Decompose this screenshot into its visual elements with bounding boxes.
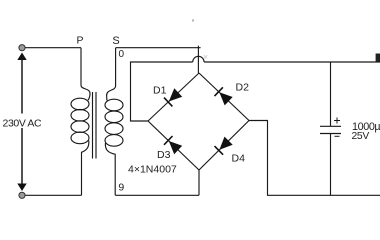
diode D1 cathode bar (164, 98, 172, 107)
transformer T1 primary bottom lead (82, 141, 89, 196)
svg-text:P: P (76, 35, 83, 47)
AC source arrow shaft (21, 56, 23, 188)
wire top from AC live terminal to transformer primary (22, 47, 81, 49)
wire bridge edge top-right (199, 73, 249, 121)
transformer T1 secondary top lead S (107, 48, 116, 101)
svg-text:D4: D4 (232, 153, 246, 165)
wire DC+ rail B left segment (131, 62, 193, 121)
wire bridge top lead (197, 46, 199, 73)
capacitor C1 plus polarity mark (334, 118, 340, 124)
svg-text:4×1N4007: 4×1N4007 (128, 164, 177, 176)
svg-text:D1: D1 (153, 85, 167, 97)
svg-text:230V AC: 230V AC (3, 118, 42, 130)
wire bridge edge top-left (148, 73, 199, 121)
diode D3 cathode bar (164, 136, 173, 145)
terminal node top (live) (19, 45, 25, 51)
stray cross artifact (204, 55, 207, 58)
transformer T1 secondary bottom lead 9 (105, 143, 115, 195)
svg-text:0: 0 (119, 49, 125, 60)
svg-text:S: S (112, 35, 119, 47)
wire bridge bottom lead (198, 170, 200, 195)
wire DC- from bridge right node to output (249, 121, 380, 196)
AC source arrowhead up (17, 53, 26, 61)
transformer T1 primary top lead P (81, 48, 90, 101)
svg-text:D2: D2 (236, 82, 250, 94)
stray mark (192, 19, 194, 21)
wire bridge edge bottom-left (148, 121, 199, 170)
transformer T1 core (93, 92, 97, 159)
svg-text:25V: 25V (352, 131, 370, 142)
wire secondary 9 terminal to bridge bottom node (115, 194, 199, 196)
AC source arrowhead down (17, 184, 26, 192)
diode D4 cathode bar (215, 146, 224, 155)
svg-text:D3: D3 (157, 149, 171, 161)
capacitor C1 minus polarity mark (335, 135, 340, 137)
diode D2 triangle (219, 92, 232, 105)
wire bottom from AC neutral terminal to transformer primary (22, 194, 82, 196)
label 230V AC background (1, 114, 45, 129)
svg-text:9: 9 (118, 182, 124, 194)
capacitor C1 bottom lead (330, 134, 332, 196)
wire hop crossover (193, 56, 204, 62)
diode D4 triangle (219, 137, 232, 150)
wire secondary 0 tap to bridge top rail A (116, 47, 201, 49)
clipped label fragment top right (376, 54, 380, 63)
transformer T1 primary winding loops (71, 98, 89, 144)
capacitor C1 plates (320, 126, 341, 133)
transformer T1 secondary winding loops (105, 99, 123, 146)
capacitor C1 top lead (330, 62, 332, 126)
terminal node bottom (neutral) (19, 192, 25, 198)
diode D2 cathode bar (215, 87, 223, 96)
diode D1 triangle (169, 88, 182, 101)
wire bridge edge bottom-right (199, 121, 249, 171)
diode D3 triangle (169, 141, 182, 154)
wire DC+ rail B right segment to output (204, 61, 380, 63)
